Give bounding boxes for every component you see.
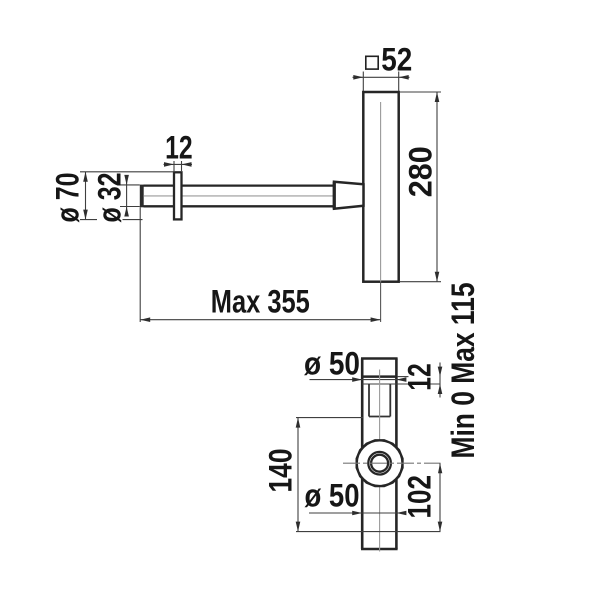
wire extension line Max355 right (body axis) bbox=[380, 282, 382, 322]
dimension 102 line with arrows bbox=[438, 463, 443, 531]
dimension Max355 line with arrows bbox=[140, 317, 380, 322]
dimension 52 line with arrows bbox=[353, 75, 410, 80]
nut top line (bottom view) bbox=[362, 383, 440, 385]
label diameter 50 top bbox=[304, 346, 360, 382]
dimension 52 extension lines bbox=[363, 72, 398, 92]
svg-text:Min 0 Max 115: Min 0 Max 115 bbox=[445, 283, 481, 459]
leader diameter50 bottom with arrows bbox=[309, 511, 406, 516]
dimension Max355 extension line left bbox=[139, 207, 141, 322]
dimension 280 extension lines bbox=[400, 92, 441, 282]
dimension 12 extension lines bbox=[174, 161, 182, 171]
centerline through nut horizontal bbox=[343, 462, 441, 464]
svg-text:Max 355: Max 355 bbox=[211, 284, 310, 320]
svg-text:102: 102 bbox=[402, 475, 438, 519]
svg-text:12: 12 bbox=[402, 363, 438, 391]
nut octagon and circles (bottom view) bbox=[356, 440, 402, 486]
dimension diameter70 line with arrows bbox=[83, 172, 88, 220]
min insertion reference line bbox=[296, 531, 441, 533]
label diameter 70 bbox=[50, 173, 86, 223]
flange (wall escutcheon) bbox=[174, 172, 182, 219]
svg-text:ø 50: ø 50 bbox=[305, 478, 360, 514]
dimension 140 line with arrows bbox=[296, 418, 301, 532]
svg-text:ø 50: ø 50 bbox=[304, 346, 360, 382]
extension line 12 bottom view bbox=[398, 376, 409, 378]
svg-text:ø 70: ø 70 bbox=[50, 173, 86, 223]
dimension diameter32 line with arrows bbox=[124, 175, 129, 217]
label Min 0 Max 115 bbox=[445, 283, 481, 459]
label diameter 32 bbox=[92, 173, 128, 223]
tube (bottom view outer profile) bbox=[361, 359, 398, 550]
dimension 280 line with arrows bbox=[435, 92, 440, 282]
pipe (horizontal inlet tube) bbox=[140, 185, 334, 208]
label Max 355 bbox=[211, 284, 310, 320]
label 12 bbox=[165, 129, 193, 165]
svg-text:ø 32: ø 32 bbox=[92, 173, 128, 223]
label 140 bbox=[263, 449, 299, 493]
dimension diameter32 extension lines bbox=[120, 185, 140, 207]
flange bottom edge (bottom view) bbox=[362, 375, 396, 378]
svg-text:280: 280 bbox=[403, 146, 439, 197]
dimension 140 extension line top bbox=[296, 417, 363, 419]
label diameter 50 bottom bbox=[305, 478, 360, 514]
dimension 12 line bottom view with arrows bbox=[438, 363, 443, 398]
label square symbol bbox=[366, 56, 378, 69]
centerline bottom view vertical bbox=[379, 370, 381, 552]
svg-text:12: 12 bbox=[165, 129, 193, 165]
body (vertical trap body, side view) bbox=[363, 92, 398, 282]
label 102 bbox=[402, 475, 438, 519]
svg-text:140: 140 bbox=[263, 449, 299, 493]
nut (compression cone into body) bbox=[334, 182, 364, 209]
label 280 bbox=[403, 146, 439, 197]
label 52 bbox=[381, 42, 412, 78]
label 12 bottom view bbox=[402, 363, 438, 391]
threaded insert lines bbox=[369, 384, 390, 417]
dimension 12 line with arrows bbox=[164, 162, 193, 167]
centerline of body bbox=[380, 102, 382, 282]
centerline of pipe bbox=[144, 195, 333, 197]
svg-text:52: 52 bbox=[381, 42, 412, 78]
leader diameter50 top with arrows bbox=[310, 377, 407, 382]
dimension diameter70 extension lines bbox=[80, 172, 174, 220]
